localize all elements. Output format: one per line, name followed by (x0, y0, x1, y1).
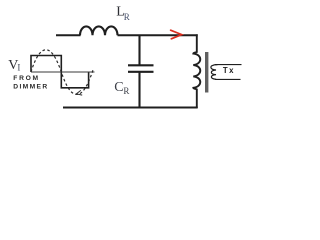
arrowhead on dotted sine at trough (76, 90, 82, 95)
red current arrow (171, 30, 182, 39)
svg-text:C: C (114, 80, 123, 95)
svg-text:I: I (17, 63, 20, 73)
wire: transformer primary top lead (196, 34, 198, 53)
capacitor CR bottom plate (128, 71, 154, 73)
node VI waveform axis (31, 71, 95, 73)
node VI source waveform: square wave (31, 56, 89, 88)
wire: bottom rail (63, 107, 198, 109)
transformer secondary winding (211, 65, 218, 80)
svg-text:Tx: Tx (223, 66, 235, 75)
svg-text:FROM: FROM (13, 75, 40, 82)
node VI dotted sine wave (31, 50, 93, 95)
wire: transformer primary bottom lead (196, 89, 198, 108)
svg-text:DIMMER: DIMMER (13, 83, 48, 90)
capacitor CR top plate (128, 64, 154, 66)
svg-text:R: R (124, 12, 130, 22)
wire: top segment from inductor to transformer (118, 34, 198, 36)
wire: capacitor bottom lead (138, 73, 140, 108)
transformer primary winding (193, 52, 200, 89)
transformer core bar (205, 52, 208, 93)
wire: top-left segment into inductor (56, 34, 81, 36)
transformer secondary top lead (215, 64, 242, 66)
svg-text:R: R (123, 86, 129, 96)
wire: capacitor top lead (138, 36, 140, 65)
inductor LR (80, 26, 118, 35)
transformer secondary bottom lead (215, 78, 241, 80)
